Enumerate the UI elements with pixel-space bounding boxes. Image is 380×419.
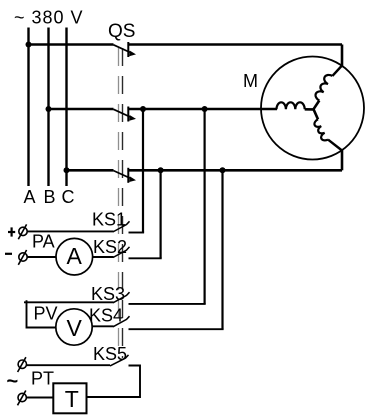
wire PA to KS2 xyxy=(93,256,114,258)
switch QS pole B xyxy=(114,107,137,122)
switch KS3 xyxy=(113,292,130,303)
node C to KS2 xyxy=(158,167,164,173)
terminal plus xyxy=(18,224,27,239)
svg-text:KS4: KS4 xyxy=(89,306,123,326)
svg-text:~: ~ xyxy=(7,371,19,393)
motor M circle xyxy=(261,57,364,160)
wire QS-A to motor xyxy=(128,43,342,46)
svg-text:T: T xyxy=(65,386,79,412)
svg-text:KS3: KS3 xyxy=(91,284,125,304)
voltmeter PV xyxy=(56,309,92,345)
node phase C tap xyxy=(64,167,70,173)
switch KS5 xyxy=(110,355,129,366)
transformer PT box xyxy=(53,383,86,413)
svg-text:~ 380 V: ~ 380 V xyxy=(14,8,84,28)
phase bus A xyxy=(27,28,29,187)
wire minus terminal to PA xyxy=(27,256,56,258)
node phase B tap xyxy=(46,106,52,112)
wire phase B to QS xyxy=(49,108,114,111)
wire phase A to QS xyxy=(29,43,114,46)
ammeter PA xyxy=(56,238,93,275)
svg-text:PV: PV xyxy=(34,303,58,323)
wire KS5 to loop xyxy=(87,366,141,398)
label - xyxy=(5,253,12,255)
node C to KS4 xyxy=(220,167,226,173)
node phase A tap xyxy=(26,42,32,48)
label + xyxy=(8,227,15,236)
motor winding phase A (upper right) xyxy=(314,66,343,110)
wire QS-C to motor xyxy=(128,169,342,172)
svg-text:KS5: KS5 xyxy=(93,344,127,364)
svg-text:V: V xyxy=(67,315,83,341)
switch KS4 xyxy=(113,316,130,327)
motor winding phase C (lower right) xyxy=(314,109,343,150)
wire KS3 left loop to PV xyxy=(24,300,114,327)
phase bus C xyxy=(65,28,67,187)
wire PV to KS4 xyxy=(92,325,113,327)
wire motor bottom corner up xyxy=(341,150,344,170)
switch QS pole C xyxy=(114,168,137,183)
wire KS2 to node xyxy=(129,257,162,259)
svg-text:M: M xyxy=(243,71,258,91)
svg-text:C: C xyxy=(62,187,75,207)
svg-text:A: A xyxy=(67,243,83,269)
terminal minus xyxy=(18,250,27,265)
wire PT bottom terminal to T box xyxy=(26,397,53,399)
wire phase C to QS xyxy=(67,169,114,172)
wire QS-B to motor xyxy=(128,108,277,111)
switch KS2 xyxy=(113,247,130,258)
wire plus terminal to KS1 xyxy=(27,230,113,232)
switch KS1 xyxy=(113,221,130,232)
wire drop B to KS1 xyxy=(142,109,144,233)
wire drop C to KS2 xyxy=(160,170,162,258)
svg-text:KS1: KS1 xyxy=(92,210,126,230)
motor winding phase B (left) xyxy=(277,102,314,109)
node B to KS3 xyxy=(202,106,208,112)
svg-text:QS: QS xyxy=(108,21,135,42)
switch QS pole A xyxy=(114,42,137,57)
svg-text:B: B xyxy=(44,187,56,207)
switch QS linkage dashed line xyxy=(119,48,123,358)
wire KS3 to node xyxy=(129,303,206,305)
terminal PT bottom xyxy=(18,391,27,406)
wire drop B to KS3 xyxy=(204,109,206,304)
svg-text:PA: PA xyxy=(32,232,55,252)
wire KS1 to node xyxy=(129,232,145,234)
svg-text:A: A xyxy=(24,187,36,207)
wire PT top terminal to KS5 xyxy=(27,364,111,366)
terminal PT top xyxy=(18,357,27,372)
svg-text:KS2: KS2 xyxy=(93,237,127,257)
wire drop C to KS4 xyxy=(221,170,223,329)
phase bus B xyxy=(47,28,49,187)
wire motor top corner down xyxy=(341,45,344,67)
svg-text:PT: PT xyxy=(31,369,54,389)
node B to KS1 xyxy=(140,106,146,112)
wire KS4 to node xyxy=(129,328,224,330)
